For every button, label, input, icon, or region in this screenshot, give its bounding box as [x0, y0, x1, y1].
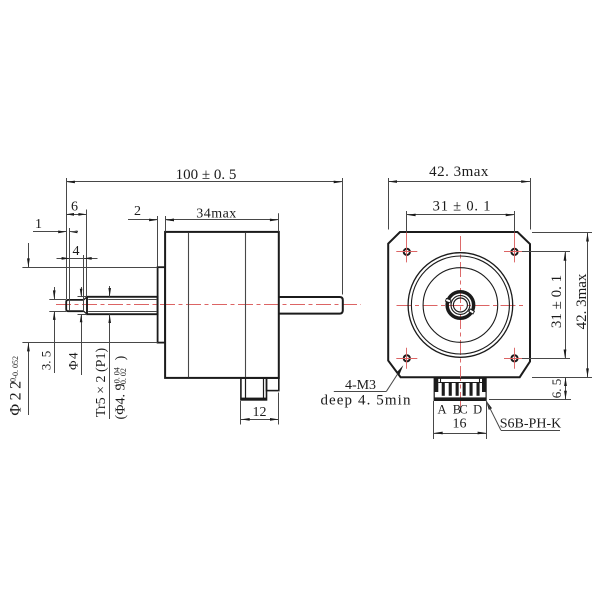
- svg-text:A: A: [437, 403, 446, 417]
- front connector bottom bar: [434, 397, 486, 400]
- svg-text:): ): [114, 355, 129, 360]
- mounting hole M3 #2: [511, 249, 517, 255]
- front connector housing: [434, 378, 486, 400]
- svg-text:100 ± 0. 5: 100 ± 0. 5: [176, 167, 237, 183]
- mounting hole M3 #1: [404, 249, 410, 255]
- front end-cap split line: [188, 233, 190, 378]
- dim phi22 extension lines: [22, 267, 157, 269]
- svg-text:(Φ4. 9: (Φ4. 9: [114, 384, 129, 420]
- leader 4-M3: [334, 391, 387, 393]
- dim Tr5 line: [109, 286, 111, 297]
- side connector shallow block: [267, 378, 279, 391]
- dim 16 line: [434, 433, 487, 435]
- dim 12 ext left: [240, 401, 242, 425]
- svg-text:Φ4: Φ4: [66, 351, 81, 370]
- dim 2 line: [128, 219, 158, 221]
- front connector pins: [442, 382, 445, 396]
- side connector inner wall left: [245, 379, 247, 400]
- dim 3.5 line: [54, 287, 56, 299]
- side connector bottom bar: [241, 398, 267, 401]
- svg-text:4: 4: [73, 244, 80, 259]
- dim 42.3max top ext right: [530, 178, 532, 230]
- leader S6B-PH-K: [486, 400, 492, 410]
- thread root line bottom: [88, 311, 157, 313]
- svg-text:D: D: [473, 403, 482, 417]
- dim 6.5 ext line: [489, 399, 571, 401]
- svg-text:3. 5: 3. 5: [39, 351, 54, 371]
- ext line boss front (x=157.9): [157, 216, 159, 267]
- svg-text:42. 3max: 42. 3max: [429, 164, 489, 180]
- dim 42.3max right line: [587, 233, 589, 378]
- rotor circle: [423, 268, 498, 343]
- rear shaft stub: [279, 297, 343, 314]
- front connector left post: [434, 378, 438, 392]
- svg-text:1: 1: [35, 217, 42, 232]
- dim 31±0.1 top line: [407, 214, 515, 216]
- dim 31±0.1 top ext right: [514, 211, 516, 232]
- front pilot boss: [158, 267, 166, 342]
- mounting hole M3 #3: [404, 355, 410, 361]
- hole #2 red crosshair: [504, 251, 525, 253]
- ext line x=69.4: [69, 228, 71, 311]
- dim 42.3max top ext left: [388, 178, 390, 230]
- svg-text:Tr5 × 2 (P1): Tr5 × 2 (P1): [94, 348, 109, 418]
- svg-text:4-M3: 4-M3: [345, 378, 376, 393]
- shaft circle outer: [451, 296, 470, 315]
- svg-text:Φ22: Φ22: [8, 377, 25, 415]
- dim 6 line: [66, 214, 86, 216]
- dim 100±0.5 line: [66, 181, 342, 183]
- hub keyway notch upper-left: [445, 298, 450, 302]
- side connector housing: [241, 378, 267, 400]
- ext line body front (x=165.2): [165, 216, 167, 232]
- shaft chamfer bottom: [84, 311, 87, 314]
- ext line body rear (x=278.75): [278, 213, 280, 231]
- svg-text:-0. 052: -0. 052: [11, 356, 20, 379]
- dim 4 line: [57, 258, 98, 260]
- svg-text:31 ± 0. 1: 31 ± 0. 1: [433, 199, 492, 215]
- rear end-cap split line: [245, 233, 247, 378]
- svg-text:deep 4. 5min: deep 4. 5min: [320, 393, 411, 409]
- front red vertical centerline: [460, 236, 462, 411]
- svg-text:2: 2: [134, 204, 141, 219]
- dim 42.3max top line: [388, 181, 530, 183]
- ext line x=86.6: [86, 210, 88, 297]
- svg-text:31 ± 0. 1: 31 ± 0. 1: [549, 275, 565, 328]
- svg-text:42. 3max: 42. 3max: [574, 273, 590, 329]
- ext line rear shaft end (x=342.5): [342, 178, 344, 295]
- dim 16 ext right: [486, 401, 488, 439]
- hole #3 red crosshair: [396, 358, 417, 360]
- ext line shaft tip (x=66.1): [66, 178, 68, 299]
- dim 16 ext left: [433, 401, 435, 439]
- hole #1 red crosshair: [396, 251, 417, 253]
- dim phi22 line: [28, 243, 30, 267]
- front face plate outline: [388, 232, 530, 377]
- dim 12 line: [241, 419, 279, 421]
- dim 3.5 extension lines: [49, 299, 66, 301]
- dim 31±0.1 right ext lines: [522, 251, 570, 253]
- shaft hub ring: [447, 292, 474, 319]
- side connector inner wall right: [263, 379, 265, 400]
- dim 34max line: [165, 219, 279, 221]
- mounting hole M3 #4: [511, 355, 517, 361]
- shaft tip section: [66, 300, 84, 311]
- dim 42.3max right ext lines: [532, 232, 592, 234]
- pilot circle inner: [411, 256, 509, 354]
- red centerline of side view: [56, 304, 361, 306]
- motor body (side view): [165, 232, 279, 378]
- front connector right post: [482, 378, 486, 392]
- lead screw main shaft: [87, 297, 158, 314]
- dim 12 ext right: [278, 393, 280, 425]
- thread root line top: [88, 299, 157, 301]
- dim 1 line: [33, 231, 66, 233]
- svg-text:16: 16: [453, 417, 467, 432]
- svg-text:12: 12: [253, 405, 267, 420]
- hub keyway notch lower-right: [469, 309, 475, 314]
- dim 6.5 line: [565, 377, 567, 399]
- dim phi4 ext lines: [78, 296, 88, 298]
- pilot circle outer: [408, 253, 513, 358]
- svg-text:6: 6: [71, 200, 78, 215]
- svg-text:6. 5: 6. 5: [549, 379, 564, 399]
- front red horizontal centerline: [397, 305, 524, 307]
- dim phi4 line: [81, 287, 83, 297]
- dim 31±0.1 top ext left: [406, 211, 408, 232]
- svg-text:C: C: [459, 403, 467, 417]
- shaft chamfer top: [84, 297, 87, 300]
- svg-text:S6B-PH-K: S6B-PH-K: [500, 416, 561, 431]
- front connector top recess: [438, 382, 482, 384]
- dim 31±0.1 right line: [565, 252, 567, 358]
- hole #4 red crosshair: [504, 358, 525, 360]
- ext line x=83.7: [83, 255, 85, 311]
- shaft circle inner: [453, 298, 467, 312]
- svg-text:-0. 02: -0. 02: [119, 368, 128, 387]
